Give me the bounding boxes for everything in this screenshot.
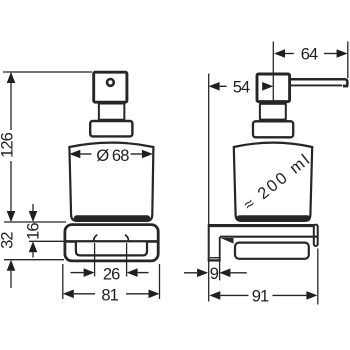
dimension 91	[209, 291, 317, 300]
svg-text:81: 81	[101, 286, 118, 304]
dimension line 126	[7, 72, 16, 222]
extension lines 9	[208, 261, 210, 301]
holder front window	[76, 242, 147, 255]
extension line holder top	[4, 221, 66, 223]
glass ring side	[235, 243, 309, 259]
svg-text:16: 16	[24, 223, 42, 240]
dimension 81	[63, 290, 160, 299]
pump head front	[94, 72, 127, 102]
dimension 54	[209, 82, 263, 91]
ring hole arc right	[125, 235, 129, 242]
spout tube	[291, 79, 348, 85]
bottle bottom band front	[74, 215, 150, 221]
dimension 32 arrows	[7, 260, 16, 288]
holder front outer	[65, 225, 158, 261]
gusset wedge	[221, 238, 234, 244]
holder front lip side	[314, 225, 318, 246]
extension line wall (side view)	[208, 74, 210, 225]
svg-text:9: 9	[210, 265, 219, 283]
wall bracket	[208, 224, 221, 261]
spout outlet lip	[343, 85, 348, 88]
dimension 16 arrows	[29, 204, 38, 258]
extension lines 81	[62, 264, 64, 299]
bottle side	[234, 143, 312, 221]
extension line holder front (91)	[317, 249, 319, 305]
extension line pump-top level (front view)	[3, 71, 92, 73]
pump collar front	[90, 121, 132, 136]
pump head side	[257, 74, 290, 102]
nozzle circle	[107, 79, 114, 86]
extension line holder middle	[29, 240, 64, 242]
svg-text:64: 64	[301, 45, 318, 63]
holder top plate side	[208, 224, 317, 227]
svg-text:Ø 68: Ø 68	[96, 147, 129, 165]
extension line holder bottom	[4, 259, 64, 261]
dimension 54 right arrow	[262, 82, 273, 91]
bottle front	[69, 143, 153, 221]
svg-text:32: 32	[0, 232, 16, 249]
dimension 9	[184, 269, 247, 278]
holder front middle line	[66, 240, 157, 243]
pump collar side	[253, 121, 293, 137]
dimension 26	[71, 268, 149, 277]
pump neck front	[99, 104, 125, 120]
svg-text:26: 26	[103, 265, 120, 283]
pump neck side	[260, 104, 286, 120]
holder underside line	[220, 236, 317, 238]
ring hole arc left	[94, 235, 98, 242]
extension line spout tip	[347, 42, 349, 79]
svg-text:126: 126	[0, 132, 17, 158]
bottle bottom band side	[237, 215, 311, 221]
extension line pump axis	[272, 42, 274, 104]
svg-text:91: 91	[252, 288, 269, 306]
svg-text:54: 54	[233, 78, 250, 96]
dimension 64	[274, 49, 348, 58]
dimension Ø 68	[69, 150, 153, 159]
extension lines 26	[94, 243, 96, 277]
